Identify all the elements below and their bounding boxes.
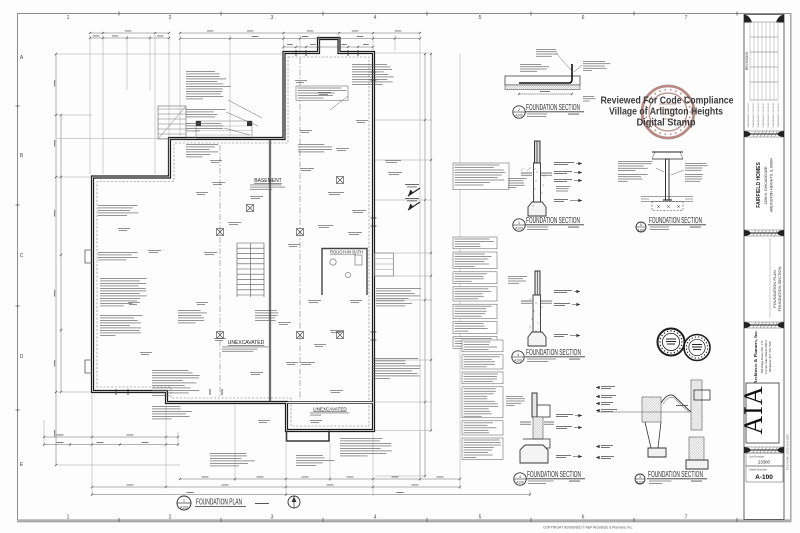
svg-text:Architects & Planners, Inc.: Architects & Planners, Inc.	[753, 330, 758, 383]
svg-text:FOUNDATION SECTION: FOUNDATION SECTION	[648, 470, 703, 479]
below plan notes center	[210, 453, 255, 466]
rough-in bath partition	[322, 249, 367, 296]
notes column boxed lower	[462, 340, 503, 352]
top dimension lines	[90, 32, 169, 34]
right leader notes	[376, 288, 421, 306]
svg-text:7: 7	[685, 15, 688, 21]
section 2: frame wall above grade	[535, 141, 541, 163]
front porch slab	[196, 121, 252, 139]
svg-text:FOUNDATION PLAN: FOUNDATION PLAN	[196, 497, 242, 507]
section 1: concrete encased electrode detail	[505, 76, 580, 85]
title block outer frame	[744, 15, 784, 520]
lower-right room partition wall	[287, 401, 373, 404]
svg-text:2: 2	[518, 108, 520, 112]
right extension lines	[375, 52, 432, 54]
svg-text:4: 4	[374, 515, 377, 521]
svg-text:Village of Arlington Heights: Village of Arlington Heights	[609, 107, 723, 118]
svg-text:Telephone: 815 790-7528: Telephone: 815 790-7528	[768, 341, 772, 372]
svg-text:4: 4	[517, 353, 519, 357]
sheet title text	[772, 266, 782, 311]
notes column mid-left	[100, 278, 147, 306]
svg-text:TRADEMARK CHECK BY: TRADEMARK CHECK BY	[777, 102, 780, 128]
svg-text:6: 6	[582, 515, 585, 521]
section 3: typ steel column on conc footing	[652, 151, 683, 153]
svg-text:Job Number: Job Number	[749, 455, 764, 459]
small scattered labels in plan	[300, 167, 314, 170]
svg-text:2: 2	[169, 15, 172, 21]
title block corner wedges top	[744, 15, 752, 23]
right dimension lines	[424, 54, 426, 476]
svg-text:FOUNDATION SECTION: FOUNDATION SECTION	[526, 103, 580, 112]
svg-text:FOUNDATION SECTION: FOUNDATION SECTION	[777, 266, 782, 311]
svg-text:A100: A100	[515, 114, 523, 118]
steel beam line	[299, 58, 301, 400]
svg-text:D: D	[20, 354, 24, 360]
spec note block top-left	[186, 71, 231, 99]
svg-text:3: 3	[271, 15, 274, 21]
svg-text:FOUNDATION SECTION: FOUNDATION SECTION	[527, 470, 581, 479]
svg-text:1: 1	[67, 15, 70, 21]
svg-text:Digital Stamp: Digital Stamp	[637, 118, 696, 129]
svg-text:COPYRIGHT ASSIGNED © A&P Archi: COPYRIGHT ASSIGNED © A&P Architects & Pl…	[543, 526, 633, 530]
svg-text:7: 7	[685, 515, 688, 521]
project info text	[756, 158, 774, 212]
right side exterior stoop	[375, 253, 394, 276]
svg-text:C: C	[20, 253, 24, 259]
grid reference numbers top	[67, 15, 688, 521]
professional seal 2	[684, 335, 710, 361]
svg-text:AIA: AIA	[739, 385, 768, 434]
exterior foundation wall outline	[93, 39, 374, 431]
architect firm text	[753, 330, 772, 383]
note sump pump	[186, 144, 218, 157]
exterior areaway stair	[158, 106, 186, 139]
job number box	[746, 453, 783, 466]
svg-text:5: 5	[640, 223, 642, 227]
svg-text:TRADEMARK CHECK BY: TRADEMARK CHECK BY	[757, 102, 760, 128]
perimeter drain tile dashed line	[97, 57, 369, 426]
svg-text:1: 1	[518, 221, 520, 225]
svg-text:5: 5	[479, 515, 482, 521]
revisions table	[749, 22, 751, 100]
stoop protrusion below lower-right room	[287, 431, 330, 442]
section 4: frame wall section	[535, 271, 540, 295]
note minimum wall	[186, 109, 226, 117]
window wells	[85, 250, 92, 263]
interior foundation wall	[269, 140, 271, 401]
notes bottom-left	[152, 370, 200, 396]
svg-text:A100: A100	[516, 481, 524, 485]
window openings ticks	[116, 50, 377, 395]
svg-text:UNEXCAVATED: UNEXCAVATED	[313, 407, 347, 412]
svg-text:4: 4	[374, 15, 377, 21]
drawing title FOUNDATION PLAN	[177, 496, 191, 510]
svg-text:3: 3	[271, 515, 274, 521]
svg-text:6: 6	[582, 15, 585, 21]
svg-text:REVISIONS: REVISIONS	[745, 51, 749, 70]
svg-text:3: 3	[639, 475, 641, 479]
bottom dimension lines	[44, 436, 178, 438]
section 5: house/garage common wall	[532, 393, 537, 417]
left extension lines	[57, 53, 283, 55]
svg-text:2256 N. CHICAGO AVE.: 2256 N. CHICAGO AVE.	[764, 165, 768, 204]
AIA logo	[746, 383, 779, 443]
notes column boxed (center)	[453, 163, 509, 190]
svg-text:TRADEMARK CHECK BY: TRADEMARK CHECK BY	[772, 102, 775, 128]
svg-text:FOUNDATION SECTION: FOUNDATION SECTION	[526, 348, 581, 357]
left dimension lines	[55, 54, 57, 465]
below plan notes right	[340, 438, 392, 456]
svg-text:4: 4	[519, 475, 521, 479]
basement stair	[237, 243, 264, 297]
svg-text:5: 5	[479, 15, 482, 21]
svg-text:FOUNDATION SECTION: FOUNDATION SECTION	[526, 216, 580, 225]
bottom extension lines	[43, 420, 45, 446]
below plan note stoop	[296, 455, 334, 466]
svg-text:Reviewed For Code Compliance: Reviewed For Code Compliance	[601, 96, 734, 107]
note left garage 1	[98, 205, 138, 216]
svg-text:A100: A100	[515, 227, 523, 231]
svg-text:A-100: A-100	[755, 474, 773, 481]
svg-text:TRADEMARK CHECK BY: TRADEMARK CHECK BY	[747, 102, 750, 128]
professional seal 1	[658, 329, 685, 356]
svg-text:UNEXCAVATED: UNEXCAVATED	[228, 340, 265, 346]
leader note top-right	[352, 64, 394, 85]
svg-text:2: 2	[169, 515, 172, 521]
svg-text:A100: A100	[514, 359, 522, 363]
sheet number box	[746, 466, 783, 482]
svg-text:TRADEMARK CHECK BY: TRADEMARK CHECK BY	[762, 102, 765, 128]
note left garage 2	[98, 252, 138, 260]
leader lines top-left	[228, 100, 262, 118]
svg-text:FILE NAME: 23300-A100.DWG: FILE NAME: 23300-A100.DWG	[786, 434, 790, 470]
svg-text:TRADEMARK CHECK BY: TRADEMARK CHECK BY	[752, 102, 755, 128]
svg-text:FAIRFIELD HOMES: FAIRFIELD HOMES	[756, 162, 762, 208]
svg-text:23300: 23300	[758, 460, 770, 465]
svg-text:BASEMENT: BASEMENT	[254, 178, 282, 184]
grid reference letters left	[20, 55, 24, 468]
top extension lines	[89, 35, 91, 174]
svg-text:1: 1	[67, 515, 70, 521]
svg-text:TRADEMARK CHECK BY: TRADEMARK CHECK BY	[767, 102, 770, 128]
steel column pads	[297, 229, 304, 236]
village review watermark seal	[642, 86, 694, 138]
svg-text:Sheet Number: Sheet Number	[749, 468, 767, 472]
svg-text:A100: A100	[637, 229, 645, 233]
svg-text:FOUNDATION SECTION: FOUNDATION SECTION	[649, 216, 702, 225]
svg-text:ARLINGTON HEIGHTS, IL 60004: ARLINGTON HEIGHTS, IL 60004	[770, 158, 774, 212]
grade arrows right of plan	[408, 188, 420, 196]
svg-text:ROUGH-IN BATH: ROUGH-IN BATH	[330, 250, 363, 255]
note inside basement	[298, 144, 332, 152]
boxed note poured conc walls	[296, 86, 348, 100]
north arrow	[288, 496, 300, 508]
svg-text:A100: A100	[180, 506, 188, 510]
note lally columns	[186, 123, 223, 131]
svg-text:A100: A100	[636, 481, 644, 485]
